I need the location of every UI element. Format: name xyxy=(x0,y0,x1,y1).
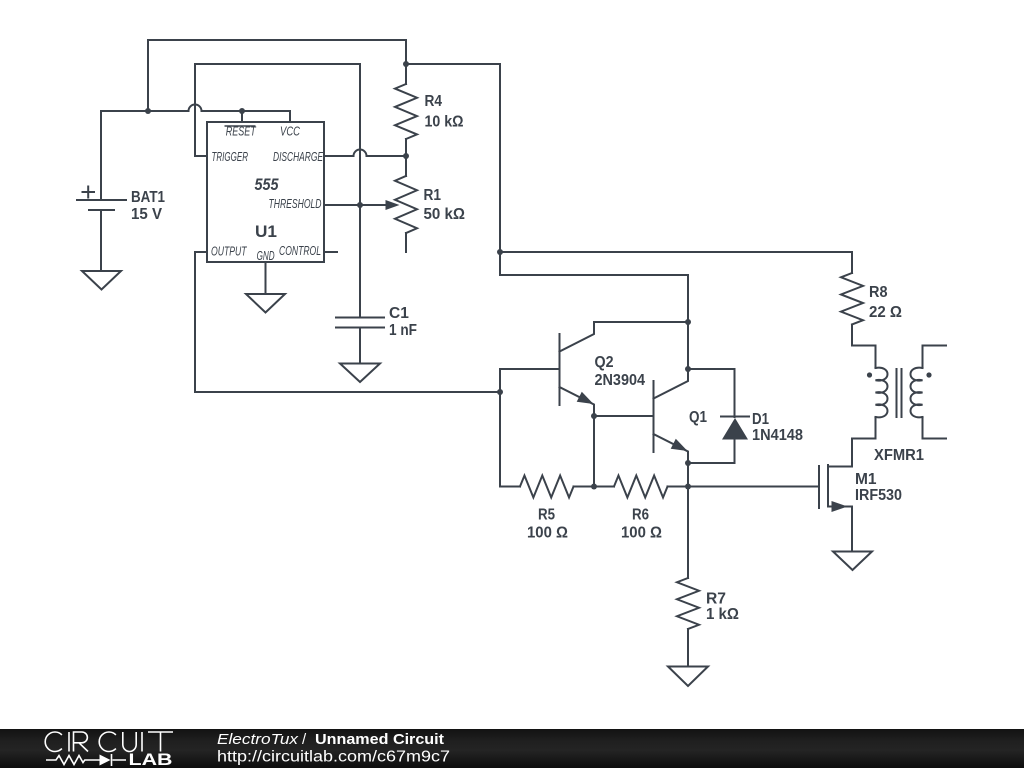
svg-text:RESET: RESET xyxy=(226,125,257,139)
svg-text:100 Ω: 100 Ω xyxy=(621,525,662,542)
svg-text:R1: R1 xyxy=(424,187,442,204)
svg-text:U1: U1 xyxy=(255,223,277,241)
svg-text:1N4148: 1N4148 xyxy=(752,427,803,444)
svg-text:1 nF: 1 nF xyxy=(389,322,417,339)
svg-text:50 kΩ: 50 kΩ xyxy=(424,206,466,223)
svg-text:R7: R7 xyxy=(706,591,726,608)
svg-text:C1: C1 xyxy=(389,305,409,322)
svg-text:22 Ω: 22 Ω xyxy=(869,304,902,321)
svg-text:D1: D1 xyxy=(752,411,769,428)
svg-text:2N3904: 2N3904 xyxy=(595,372,646,389)
svg-text:BAT1: BAT1 xyxy=(131,189,165,206)
svg-text:LAB: LAB xyxy=(129,751,173,768)
svg-text:XFMR1: XFMR1 xyxy=(874,447,924,464)
svg-text:THRESHOLD: THRESHOLD xyxy=(269,197,322,211)
svg-text:CONTROL: CONTROL xyxy=(279,244,321,258)
svg-text:R5: R5 xyxy=(538,507,555,524)
svg-text:R8: R8 xyxy=(869,284,888,301)
svg-text:Q2: Q2 xyxy=(595,354,614,371)
svg-text:R6: R6 xyxy=(632,507,649,524)
svg-text:1 kΩ: 1 kΩ xyxy=(706,606,739,623)
svg-text:Q1: Q1 xyxy=(689,409,707,426)
svg-text:R4: R4 xyxy=(425,93,443,110)
svg-text:OUTPUT: OUTPUT xyxy=(211,245,247,259)
svg-text:GND: GND xyxy=(257,249,275,263)
svg-text:M1: M1 xyxy=(855,471,877,488)
svg-text:Unnamed Circuit: Unnamed Circuit xyxy=(315,731,444,748)
svg-text:15 V: 15 V xyxy=(131,206,163,223)
svg-text:VCC: VCC xyxy=(280,125,301,139)
svg-text:10 kΩ: 10 kΩ xyxy=(425,114,464,131)
svg-text:DISCHARGE: DISCHARGE xyxy=(273,150,323,164)
svg-text:100 Ω: 100 Ω xyxy=(527,525,568,542)
svg-text:IRF530: IRF530 xyxy=(855,487,902,504)
svg-text:http://circuitlab.com/c67m9c7: http://circuitlab.com/c67m9c7 xyxy=(217,749,450,766)
svg-text:ElectroTux: ElectroTux xyxy=(217,731,299,748)
svg-text:TRIGGER: TRIGGER xyxy=(212,150,249,164)
svg-text:555: 555 xyxy=(255,175,279,194)
